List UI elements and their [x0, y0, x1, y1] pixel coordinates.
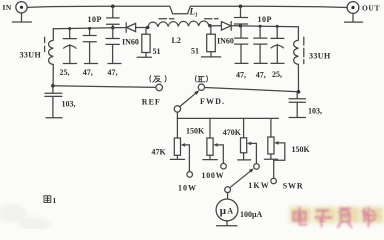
- svg-text:100W: 100W: [202, 171, 225, 180]
- svg-text:47,: 47,: [83, 68, 93, 77]
- wire (pole to meter): [227, 193, 229, 199]
- junction node: [68, 27, 71, 30]
- svg-text:25,: 25,: [272, 70, 282, 79]
- meter M1: [216, 199, 238, 221]
- core dashes (left): [44, 37, 46, 51]
- junction (top left): [111, 5, 115, 9]
- svg-text:33UH: 33UH: [20, 51, 42, 60]
- junction node: [88, 27, 91, 30]
- capacitor C5 47: [106, 29, 121, 63]
- coupling core dashed line: [159, 18, 218, 20]
- bus wire (left cap bank): [53, 28, 113, 29]
- label figure 1: [44, 196, 57, 205]
- svg-text:103,: 103,: [62, 100, 76, 109]
- svg-text:47,: 47,: [236, 70, 246, 79]
- wire: [136, 27, 148, 29]
- terminal REF: [156, 84, 163, 91]
- svg-text:103,: 103,: [308, 107, 322, 116]
- switch S1 pole: [174, 106, 180, 112]
- svg-text:51: 51: [153, 47, 161, 56]
- junction node: [259, 25, 262, 28]
- potentiometer VR3 470K: [238, 118, 257, 163]
- svg-text:1: 1: [53, 196, 57, 205]
- inductor L3 33UH (left): [49, 29, 54, 86]
- diode D1 IN60 (points left): [126, 23, 135, 32]
- junction node: [297, 90, 301, 94]
- ground (under IN): [12, 13, 31, 22]
- watermark: [290, 207, 383, 228]
- terminal 10W: [187, 172, 193, 178]
- connector J2 OUT: [347, 2, 359, 14]
- svg-text:OUT: OUT: [362, 3, 380, 12]
- svg-text:REF: REF: [142, 98, 161, 107]
- inductor L4 33UH (right): [294, 27, 299, 92]
- wire (to REF): [53, 86, 156, 88]
- label L1: [189, 7, 198, 19]
- capacitor C2 10P (right): [234, 6, 247, 24]
- ground (meter): [217, 221, 238, 226]
- connector J1 IN: [16, 2, 27, 13]
- capacitor C7 47 (right bank): [235, 28, 248, 64]
- svg-text:10P: 10P: [258, 15, 272, 24]
- wire top line with sense dip: [27, 6, 347, 14]
- svg-text:L2: L2: [172, 36, 181, 45]
- svg-text:150K: 150K: [292, 145, 311, 154]
- wire (pole to range bus): [176, 112, 178, 118]
- svg-text:IN60: IN60: [122, 37, 139, 46]
- junction node: [51, 84, 55, 88]
- capacitor C3 25p: [63, 29, 76, 64]
- svg-text:A: A: [227, 207, 233, 216]
- label (fan): [150, 76, 166, 83]
- svg-text:IN: IN: [3, 3, 12, 12]
- svg-text:47,: 47,: [256, 70, 266, 79]
- svg-text:μ: μ: [220, 205, 227, 217]
- junction (top right): [239, 5, 243, 9]
- terminal SWR: [271, 178, 277, 184]
- diode D2 IN60 (points right): [221, 22, 231, 31]
- terminal 1KW: [254, 164, 260, 170]
- ground (under OUT): [345, 14, 363, 23]
- resistor R2 51: [201, 26, 220, 57]
- potentiometer VR4 150K (sensitivity): [264, 118, 284, 178]
- switch S1 arm: [180, 90, 200, 106]
- capacitor C1 10P (left): [107, 6, 120, 27]
- capacitor C4 47: [83, 29, 97, 64]
- junction node (left detector): [111, 26, 114, 29]
- svg-text:10W: 10W: [178, 183, 197, 192]
- junction node: [208, 24, 211, 27]
- capacitor C9 25 (right bank): [271, 26, 284, 63]
- junction node: [239, 24, 242, 27]
- svg-text:100μA: 100μA: [240, 210, 263, 219]
- terminal FWD: [198, 84, 204, 90]
- svg-text:51: 51: [191, 47, 199, 56]
- wire: [231, 25, 240, 27]
- capacitor C6 103 (left): [45, 86, 62, 118]
- label (zheng): [195, 76, 207, 82]
- inductor L2: [148, 21, 209, 27]
- svg-text:SWR: SWR: [283, 181, 304, 190]
- svg-text:25,: 25,: [60, 68, 70, 77]
- wire: [113, 27, 126, 29]
- junction node: [276, 25, 279, 28]
- svg-text:FWD.: FWD.: [200, 97, 225, 106]
- svg-text:1: 1: [195, 13, 198, 19]
- switch S2 pole: [225, 187, 231, 193]
- core dashes (right): [303, 37, 305, 63]
- svg-text:470K: 470K: [223, 128, 242, 137]
- svg-text:150K: 150K: [186, 126, 205, 135]
- svg-text:IN60: IN60: [217, 37, 234, 46]
- scan shading bottom-left: [0, 204, 50, 231]
- terminal 100W: [221, 163, 227, 169]
- wire: [209, 25, 222, 27]
- resistor R1 51: [137, 28, 151, 58]
- svg-text:47,: 47,: [108, 68, 118, 77]
- potentiometer VR1 47K: [170, 118, 189, 171]
- svg-text:10P: 10P: [88, 15, 102, 24]
- svg-text:47K: 47K: [152, 148, 167, 157]
- capacitor C8 47 (right bank): [254, 26, 267, 63]
- potentiometer VR2 150K: [203, 118, 223, 163]
- capacitor C10 103 (right): [289, 92, 305, 118]
- switch S2 arm: [230, 168, 254, 188]
- svg-text:1KW: 1KW: [248, 181, 270, 190]
- junction node: [146, 26, 149, 29]
- bus (range divider): [177, 117, 278, 119]
- wire (FWD to right return bus): [205, 88, 299, 92]
- svg-text:33UH: 33UH: [309, 52, 331, 61]
- wire (right detector bus): [241, 25, 299, 28]
